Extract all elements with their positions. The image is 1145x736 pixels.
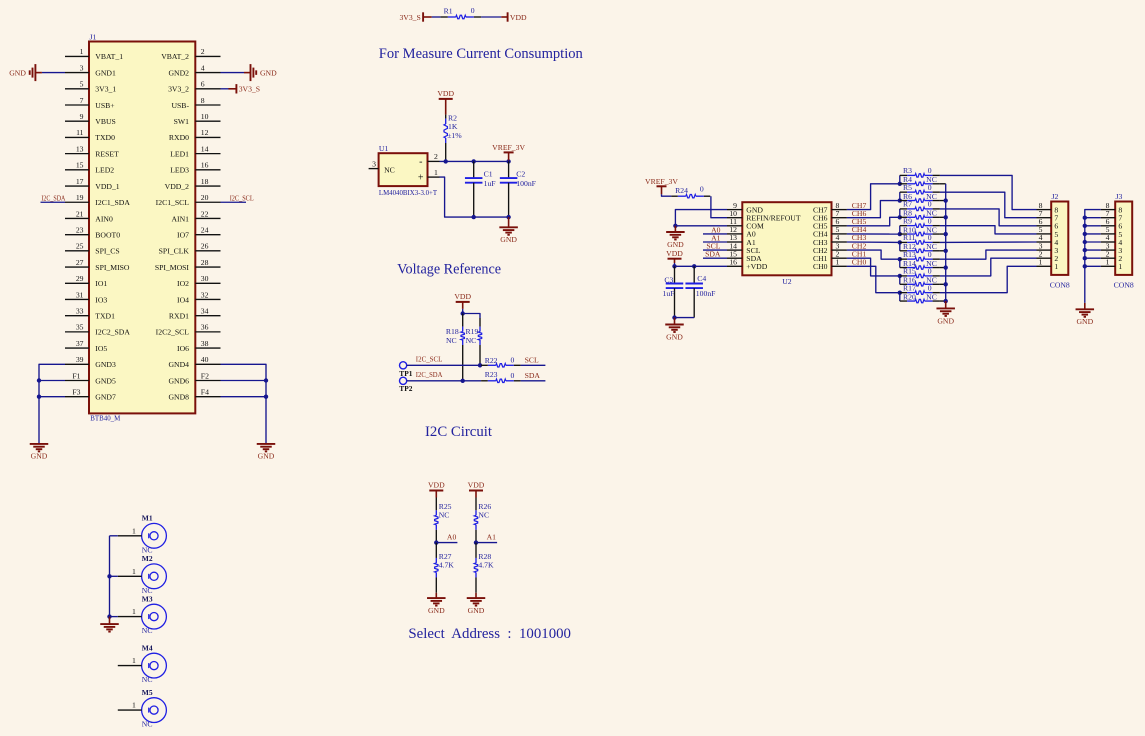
wire R23 to SDA port [521,380,546,382]
svg-text:GND5: GND5 [95,376,116,385]
svg-text:R20: R20 [903,292,916,301]
svg-text:R23: R23 [485,370,498,379]
junction CH node R9 [898,232,902,236]
junction NC bus row 1 [944,198,948,202]
junction J3 bus pin 3 [1083,248,1087,252]
J1 pin 9 VBUS [65,120,89,122]
svg-text:M4: M4 [142,643,153,652]
svg-text:TXD1: TXD1 [95,311,115,320]
node A1 [476,542,497,544]
svg-text:3V3_1: 3V3_1 [95,85,116,94]
J2 pin 3 [1037,249,1052,251]
svg-text:SCL: SCL [525,356,539,365]
J1 pin 15 LED2 [65,169,89,171]
junction C1 bottom [472,215,476,219]
svg-text:IO3: IO3 [95,295,107,304]
wire net CH1 U2 to array [847,258,900,276]
wire J3 pin 6 to bus [1085,225,1101,227]
junction J3 bus pin 5 [1083,232,1087,236]
svg-text:3V3_S: 3V3_S [399,13,420,22]
J1 pin 20 I2C1_SCL [195,201,220,203]
svg-text:NC: NC [384,166,395,175]
svg-text:R17: R17 [903,283,916,292]
U2 pin 15 SDA [727,257,742,259]
svg-text:29: 29 [76,274,84,283]
resistor R2 [445,115,447,119]
J3 pin 4 [1101,241,1116,243]
wire J3 pin 7 to bus [1085,217,1101,219]
junction C4 top [692,264,696,268]
svg-text:1: 1 [1039,258,1043,267]
resistor R7 0 [900,208,907,210]
junction CH node R17 [898,290,902,294]
svg-text:CH0: CH0 [852,258,867,267]
svg-text:12: 12 [201,128,209,137]
svg-text:1: 1 [132,656,136,665]
svg-text:GND: GND [31,452,48,461]
wire VDD to R18 R19 [462,309,464,314]
J1 pin 10 SW1 [195,120,220,122]
M5 pin 1 [118,709,142,711]
svg-text:5: 5 [80,80,84,89]
svg-text:NC: NC [142,626,153,635]
junction A1 [474,540,478,544]
capacitor C3 [674,266,676,283]
J2 pin 8 [1037,209,1052,211]
svg-text:SDA: SDA [705,250,721,259]
svg-text:LM4040BIX3-3.0+T: LM4040BIX3-3.0+T [379,188,437,197]
J3 pin 5 [1101,233,1116,235]
ground GND at J1 pin 4 [244,72,251,74]
svg-text:NC: NC [466,336,477,345]
J1 pin 24 IO7 [195,234,220,236]
J1 pin 5 3V3_1 [65,88,89,90]
wire I2C_SCL line [407,364,481,366]
J1 pin 27 SPI_MISO [65,266,89,268]
junction NC bus row 4 [944,249,948,253]
svg-text:Voltage Reference: Voltage Reference [397,261,501,277]
svg-text:USB-: USB- [171,101,189,110]
svg-text:13: 13 [76,144,84,153]
svg-text:GND3: GND3 [95,360,116,369]
svg-text:1: 1 [132,701,136,710]
svg-text:NC: NC [926,292,937,301]
mounting hole M3 [142,604,167,629]
svg-text:TXD0: TXD0 [95,133,115,142]
svg-text:R5: R5 [903,183,912,192]
svg-text:100nF: 100nF [696,289,716,298]
U2 pin 16 +VDD [727,265,742,267]
svg-text:AIN1: AIN1 [171,214,189,223]
wire U1 pin2 to VREF rail [440,160,509,162]
svg-text:BTB40_M: BTB40_M [90,414,120,423]
J1 pin 35 I2C2_SDA [65,331,89,333]
svg-text:GND8: GND8 [169,393,190,402]
junction VDD C3 [672,264,676,268]
svg-text:GND2: GND2 [169,68,190,77]
wire net CH4 U2 to array [847,233,900,235]
svg-text:-: - [419,156,422,167]
svg-text:LED1: LED1 [170,149,189,158]
svg-text:39: 39 [76,355,84,364]
svg-text:GND: GND [937,316,954,325]
power port VDD above R2 [439,98,453,100]
svg-text:0: 0 [928,166,932,175]
svg-text:8: 8 [201,96,205,105]
svg-text:I2C_SDA: I2C_SDA [41,194,65,203]
connector J2 CON8 body [1051,202,1068,275]
M1 pin 1 [118,535,142,537]
junction bus M2 [107,574,111,578]
ground GND left of J1 bottom [30,443,49,445]
wire net A0 at U2 pin 12 [703,233,727,235]
svg-text:15: 15 [76,161,84,170]
power port VDD at R1 [507,12,509,21]
junction R19 on SCL [478,363,482,367]
svg-text:24: 24 [201,225,209,234]
wire VDD to pin16 [675,263,728,266]
J1 pin 38 IO6 [195,347,220,349]
power port VDD above R25 [429,490,443,492]
svg-text:F2: F2 [201,371,209,380]
J3 pin 2 [1101,257,1116,259]
wire M2 to bus [110,575,118,577]
svg-text:26: 26 [201,242,209,251]
J1 pin 34 RXD1 [195,315,220,317]
J1 pin F1 GND5 [65,380,89,382]
J1 pin 17 VDD_1 [65,185,89,187]
wire J3 pin 3 to bus [1085,249,1101,251]
U2 pin 3 CH2 [832,249,847,251]
svg-text:38: 38 [201,339,209,348]
junction J3 bus pin 6 [1083,224,1087,228]
U1 pin 1 plus [428,176,440,178]
J2 pin 6 [1037,225,1052,227]
wire pin3 to GND [42,72,65,74]
J1 pin 28 SPI_MOSI [195,266,220,268]
svg-text:16: 16 [729,258,737,267]
svg-text:35: 35 [76,323,84,332]
junction A0 [434,540,438,544]
wire net CH7 U2 to array [847,184,900,210]
wire net I2C_SDA at pin 19 [41,201,66,203]
svg-text:NC: NC [446,336,457,345]
mounting hole M5 [142,698,167,723]
svg-text:U2: U2 [782,277,792,286]
svg-text:11: 11 [76,128,84,137]
svg-text:R13: R13 [903,250,916,259]
J1 pin 21 AIN0 [65,217,89,219]
J3 pin 1 [1101,265,1116,267]
svg-text:37: 37 [76,339,84,348]
svg-text:R1: R1 [444,7,453,16]
wire array GND bus [945,184,947,301]
J1 pin 12 RXD0 [195,136,220,138]
J1 pin 8 USB- [195,104,220,106]
svg-text:R3: R3 [903,166,912,175]
svg-text:C2: C2 [516,169,525,178]
svg-text:0: 0 [928,250,932,259]
resistor R27 4.7K [435,543,437,558]
svg-text:32: 32 [201,290,209,299]
J1 pin 22 AIN1 [195,217,220,219]
wire J1 left ground bus [39,364,65,444]
wire J3 pin 4 to bus [1085,241,1101,243]
U1 pin 2 minus [428,160,440,162]
resistor R18 NC [462,314,464,327]
junction J3 bus pin 1 [1083,264,1087,268]
ground GND below R27 [435,593,437,598]
svg-text:GND: GND [667,240,684,249]
wire R17 to J2 pin 1 [940,266,1037,292]
J2 pin 4 [1037,241,1052,243]
array pair R7/R8 left jog [899,209,901,217]
svg-text:IO1: IO1 [95,279,107,288]
svg-text:34: 34 [201,306,209,315]
mounting hole M2 [142,564,167,589]
svg-text:28: 28 [201,258,209,267]
svg-text:21: 21 [76,209,84,218]
svg-text:M2: M2 [142,554,153,563]
svg-text:3V3_2: 3V3_2 [168,85,189,94]
svg-text:0: 0 [928,233,932,242]
svg-text:I2C_SCL: I2C_SCL [416,354,443,363]
svg-text:R18: R18 [446,327,459,336]
resistor R25 NC [435,498,437,511]
resistor R13 0 [900,258,907,260]
svg-text:100nF: 100nF [516,179,536,188]
svg-text:CON8: CON8 [1050,280,1070,289]
J1 pin 33 TXD1 [65,315,89,317]
capacitor C1 [473,161,475,178]
svg-text:18: 18 [201,177,209,186]
svg-text:SDA: SDA [525,371,541,380]
M2 pin 1 [118,575,142,577]
svg-text:1: 1 [1118,262,1122,271]
J1 pin 37 IO5 [65,347,89,349]
U2 pin 11 COM [727,225,742,227]
wire C4 bottom to C3 bottom [675,317,695,319]
svg-text:A1: A1 [487,532,497,541]
svg-text:23: 23 [76,225,84,234]
svg-text:I2C_SDA: I2C_SDA [416,370,443,379]
svg-text:30: 30 [201,274,209,283]
svg-text:R22: R22 [485,356,498,365]
wire J3 pin 2 to bus [1085,257,1101,259]
svg-text:GND4: GND4 [169,360,190,369]
J1 pin 40 GND4 [195,363,220,365]
mounting hole M1 [142,523,167,548]
wire net A1 at U2 pin 13 [703,241,727,243]
ground GND below C2 [508,217,510,227]
junction C3 bottom [672,315,676,319]
svg-text:0: 0 [928,283,932,292]
svg-text:R15: R15 [903,267,916,276]
J2 pin 1 [1037,265,1052,267]
svg-text:IO2: IO2 [177,279,189,288]
wire I2C_SDA line [407,380,481,382]
svg-text:VBUS: VBUS [95,117,116,126]
ground GND below array bus [945,301,947,308]
junction left bus F3 [37,395,41,399]
junction J3 bus pin 7 [1083,216,1087,220]
voltage reference U1 LM4040 body [379,153,428,186]
ground GND below J3 bus [1084,303,1086,309]
resistor R8 NC [900,216,907,218]
capacitor C4 [693,266,695,283]
svg-text:VDD: VDD [510,13,527,22]
U2 pin 14 SCL [727,249,742,251]
M4 pin 1 [118,665,142,667]
svg-text:I2C Circuit: I2C Circuit [425,424,492,440]
resistor R12 NC [900,250,907,252]
resistor R20 NC [900,300,907,302]
junction C1 top [472,159,476,163]
wire pin9 GND net [675,210,727,226]
J1 pin 36 I2C2_SCL [195,331,220,333]
resistor R10 NC [900,233,907,235]
wire R7 to J2 pin 6 [940,209,1037,226]
svg-text:+VDD: +VDD [746,262,767,271]
resistor R26 NC [475,498,477,511]
svg-text:F4: F4 [201,388,209,397]
svg-text:I2C1_SDA: I2C1_SDA [95,198,130,207]
svg-text:R19: R19 [465,327,478,336]
svg-text:GND: GND [428,606,445,615]
svg-text:1: 1 [836,258,840,267]
svg-text:0: 0 [928,267,932,276]
svg-text:LED3: LED3 [170,166,189,175]
svg-text:GND1: GND1 [95,68,116,77]
J3 pin 3 [1101,249,1116,251]
svg-text:40: 40 [201,355,209,364]
junction NC bus row 5 [944,265,948,269]
svg-text:VDD: VDD [468,481,485,490]
svg-text:J3: J3 [1116,192,1123,201]
svg-text:RXD0: RXD0 [169,133,189,142]
J1 pin 1 VBAT_1 [65,55,89,57]
svg-text:0: 0 [928,200,932,209]
svg-text:M5: M5 [142,688,153,697]
svg-text:TP1: TP1 [399,369,412,378]
array pair R9/R10 left jog [899,226,901,234]
svg-text:4.7K: 4.7K [439,561,455,570]
resistor R16 NC [900,283,907,285]
svg-text:For Measure Current Consumptio: For Measure Current Consumption [379,46,584,62]
svg-text:NC: NC [142,675,153,684]
svg-text:C1: C1 [484,169,493,178]
svg-text:0: 0 [700,184,704,193]
wire net SCL at U2 pin 14 [703,249,727,251]
svg-text:VREF_3V: VREF_3V [645,177,678,186]
ADC U2 body [742,202,831,275]
svg-text:14: 14 [201,144,209,153]
svg-text:I2C2_SCL: I2C2_SCL [156,328,190,337]
U2 pin 7 CH6 [832,217,847,219]
wire J3 pin 5 to bus [1085,233,1101,235]
svg-text:31: 31 [76,290,84,299]
svg-text:F1: F1 [72,371,80,380]
array pair R3/R4 left jog [899,175,901,183]
svg-text:1: 1 [1106,258,1110,267]
U2 pin 10 REFIN/REFOUT [727,217,742,219]
svg-text:19: 19 [76,193,84,202]
wire 3V3_S to R1 [432,16,441,18]
svg-text:C4: C4 [697,274,706,283]
resistor R3 0 [900,174,907,176]
U2 pin 9 GND [727,209,742,211]
J1 pin F3 GND7 [65,396,89,398]
svg-text:NC: NC [439,510,450,519]
svg-text:VDD: VDD [428,481,445,490]
svg-text:1K: 1K [448,122,458,131]
ground GND below R28 [475,593,477,598]
node A0 [436,542,457,544]
svg-text:GND6: GND6 [169,376,190,385]
svg-text:1: 1 [80,47,84,56]
junction right bus F2 [264,378,268,382]
power port VREF_3V [504,151,514,153]
J1 pin 23 BOOT0 [65,234,89,236]
svg-text:1uF: 1uF [663,289,675,298]
J1 pin 30 IO2 [195,282,220,284]
svg-text:VBAT_2: VBAT_2 [161,52,189,61]
svg-text:17: 17 [76,177,84,186]
resistor R15 0 [900,275,907,277]
svg-text:VDD_1: VDD_1 [95,182,119,191]
wire R3 to J2 pin 8 [940,175,1037,209]
svg-text:7: 7 [80,96,84,105]
J1 pin 29 IO1 [65,282,89,284]
resistor R28 4.7K [475,543,477,558]
J1 pin 26 SPI_CLK [195,250,220,252]
power port VDD at U2 pin16 [668,258,682,260]
svg-text:9: 9 [80,112,84,121]
svg-text:R7: R7 [903,200,912,209]
wire net CH5 U2 to array [847,217,900,226]
svg-text:GND: GND [500,235,517,244]
svg-text:2: 2 [201,47,205,56]
wire R24 to pin10 REFIN [711,196,727,218]
svg-text:1: 1 [132,567,136,576]
svg-text:IO7: IO7 [177,230,189,239]
svg-text:SPI_CS: SPI_CS [95,247,119,256]
U2 pin 1 CH0 [832,265,847,267]
svg-text:10: 10 [201,112,209,121]
svg-text:C3: C3 [664,276,673,285]
junction R18 on SDA [461,379,465,383]
power port VREF_3V at U2 [657,185,667,187]
junction CH node R3 [898,182,902,186]
svg-text:4.7K: 4.7K [478,561,494,570]
junction CH node R11 [898,240,902,244]
svg-text:3: 3 [80,63,84,72]
U2 pin 6 CH5 [832,225,847,227]
wire R9 to J2 pin 5 [940,226,1037,234]
wire R15 to J2 pin 2 [940,258,1037,276]
svg-text:36: 36 [201,323,209,332]
svg-text:25: 25 [76,242,84,251]
junction J3 bus pin 2 [1083,256,1087,260]
resistor R19 NC [479,318,481,327]
svg-text:U1: U1 [379,144,389,153]
wire mounting hole ground bus [109,536,111,617]
wire net CH0 U2 to array [847,266,900,292]
svg-text:NC: NC [142,720,153,729]
svg-text:0: 0 [511,371,515,380]
array pair R11/R12 left jog [899,242,901,250]
wire net CH6 U2 to array [847,201,900,218]
